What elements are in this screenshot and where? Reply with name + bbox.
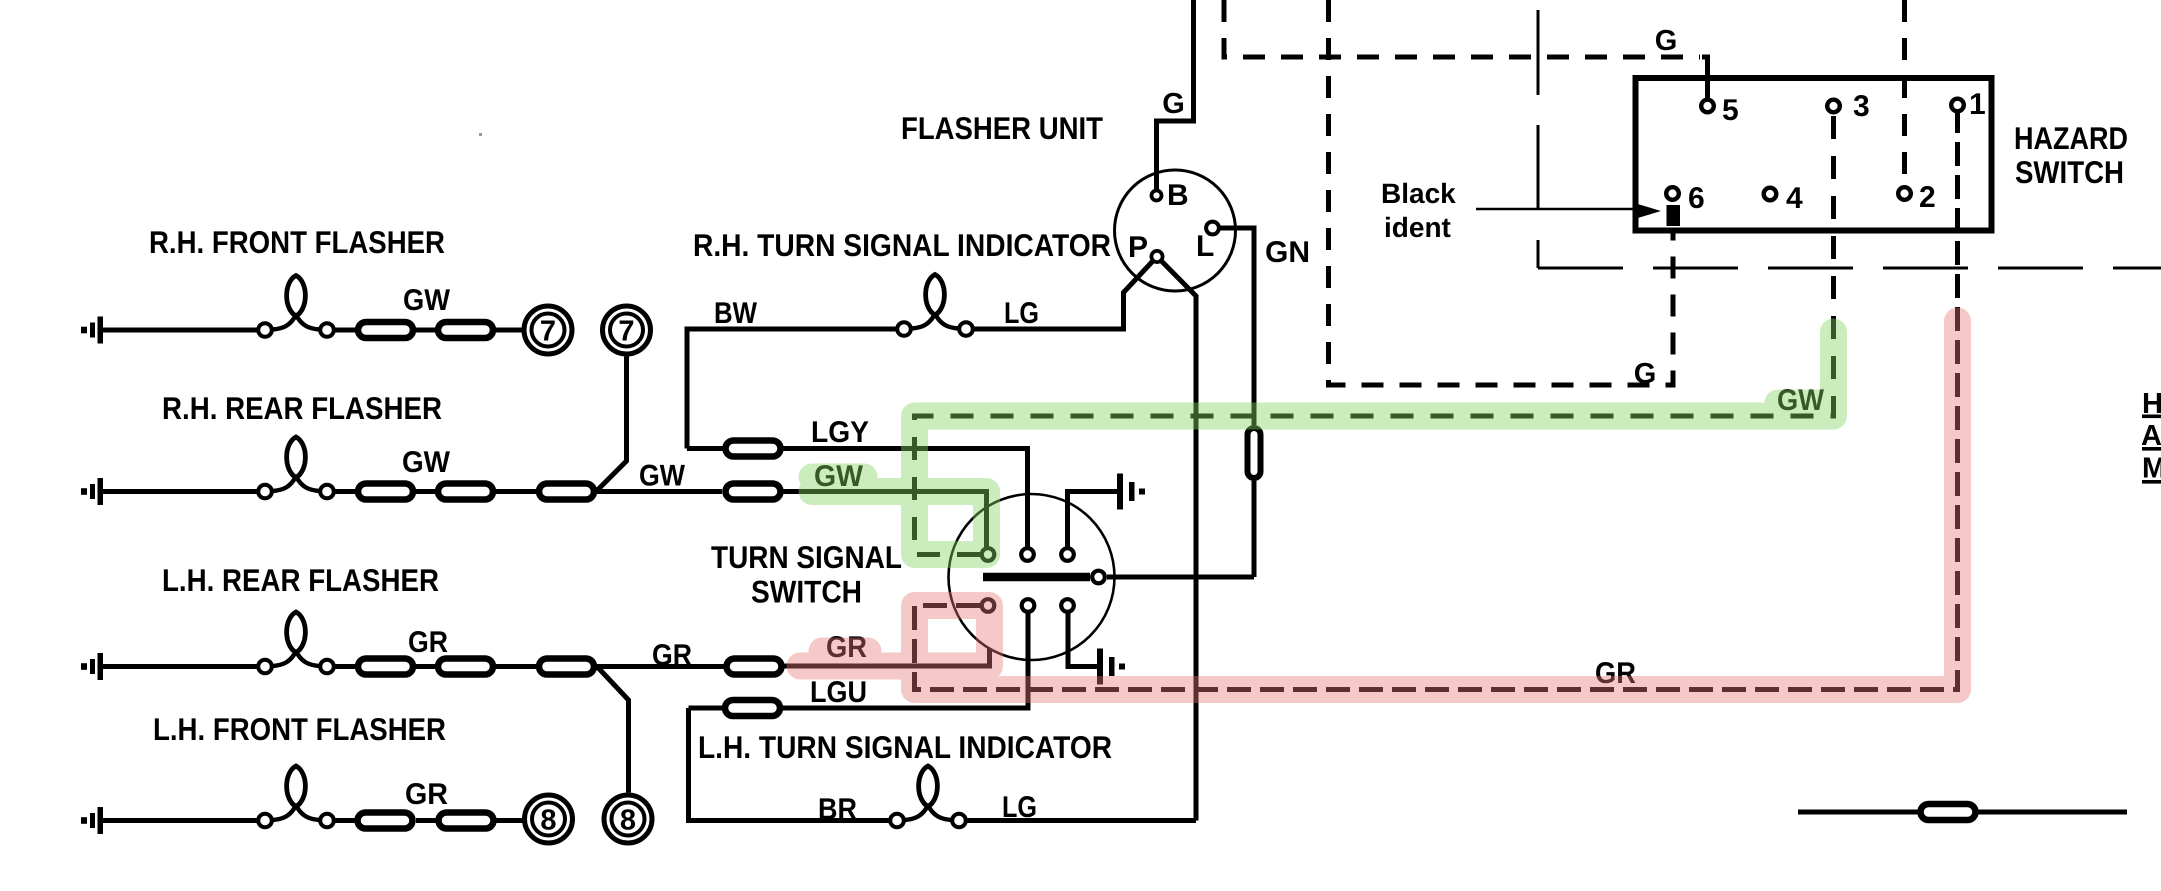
- lamp R.H. front flasher: [258, 276, 334, 337]
- wire L.H. front flasher: [103, 818, 523, 823]
- connector: [438, 659, 493, 675]
- connector: [358, 659, 413, 675]
- scan speck: [479, 133, 482, 136]
- label L.H. REAR FLASHER: [162, 562, 439, 598]
- svg-text:7: 7: [618, 316, 634, 348]
- svg-text:BW: BW: [714, 297, 758, 330]
- arrow to black ident: [1476, 204, 1661, 219]
- svg-text:GR: GR: [408, 626, 448, 659]
- wire R.H. front flasher: [103, 328, 522, 333]
- pin 2 of hazard switch: [1898, 181, 1935, 214]
- svg-text:1: 1: [1969, 88, 1986, 121]
- pin B of flasher unit: [1152, 191, 1162, 201]
- wire GR to turn signal switch terminal: [785, 614, 990, 667]
- svg-text:GW: GW: [639, 460, 686, 493]
- svg-text:LGY: LGY: [811, 416, 869, 449]
- wire node 7 to R.H. rear flasher junction: [597, 357, 627, 491]
- connector: [439, 813, 494, 829]
- svg-text:R.H. TURN SIGNAL INDICATOR: R.H. TURN SIGNAL INDICATOR: [693, 227, 1111, 263]
- turn signal switch body: [949, 494, 1115, 660]
- label L: [1196, 230, 1214, 263]
- label P: [1128, 231, 1148, 264]
- highlight red GR route: [800, 321, 1958, 690]
- label Black ident: [1381, 178, 1456, 243]
- wire L.H. rear flasher: [103, 664, 724, 669]
- svg-text:B: B: [1167, 179, 1189, 212]
- svg-text:ident: ident: [1384, 212, 1451, 243]
- lamp L.H. rear flasher: [258, 612, 334, 673]
- wire from flasher unit pin P to L.H. indicator: [1157, 257, 1196, 821]
- connector: [358, 322, 413, 338]
- svg-text:R.H. FRONT FLASHER: R.H. FRONT FLASHER: [149, 224, 445, 260]
- label B: [1167, 179, 1189, 212]
- svg-text:GW: GW: [403, 284, 451, 317]
- svg-text:M: M: [2142, 453, 2161, 485]
- centre line (panel boundary): [1538, 10, 2161, 268]
- wire GW to turn signal switch terminal: [784, 492, 987, 548]
- wire LGY: [687, 449, 1028, 548]
- node 8: [525, 795, 573, 843]
- connector GR: [727, 659, 782, 675]
- svg-text:3: 3: [1853, 90, 1870, 123]
- lamp L.H. turn signal indicator: [890, 766, 966, 827]
- pin 5 of hazard switch: [1701, 94, 1738, 127]
- svg-text:LGU: LGU: [810, 676, 867, 709]
- pin P of flasher unit: [1151, 251, 1162, 262]
- connector: [438, 322, 493, 338]
- label R.H. TURN SIGNAL INDICATOR: [693, 227, 1111, 263]
- svg-text:SWITCH: SWITCH: [2015, 154, 2124, 190]
- label GW (after junction): [639, 460, 686, 493]
- label G: [1655, 25, 1678, 57]
- svg-text:LG: LG: [1002, 791, 1037, 824]
- label R.H. FRONT FLASHER: [149, 224, 445, 260]
- label LGY: [811, 416, 869, 449]
- svg-text:5: 5: [1722, 94, 1739, 127]
- wire BR / LG (L.H. turn signal indicator): [689, 708, 1197, 821]
- node 7: [603, 306, 651, 354]
- svg-text:G: G: [1634, 358, 1657, 390]
- wire lower ground of turn signal switch: [1068, 614, 1097, 667]
- pin L of flasher unit: [1206, 222, 1219, 235]
- svg-text:8: 8: [620, 805, 636, 837]
- connector: [358, 813, 413, 829]
- ground R.H. rear flasher: [81, 478, 103, 505]
- lamp R.H. rear flasher: [258, 437, 334, 498]
- connector GN vertical: [1248, 428, 1261, 478]
- terminal B2: [1022, 599, 1035, 612]
- connector: [539, 659, 594, 675]
- terminal B1: [982, 599, 995, 612]
- svg-text:L.H. REAR FLASHER: L.H. REAR FLASHER: [162, 562, 439, 598]
- label L.H. TURN SIGNAL INDICATOR: [698, 729, 1112, 765]
- terminal T1: [982, 548, 995, 561]
- svg-text:Black: Black: [1381, 178, 1456, 209]
- hazard switch body: [1636, 78, 1992, 231]
- ground L.H. front flasher: [81, 807, 103, 834]
- svg-text:4: 4: [1786, 182, 1803, 215]
- svg-text:P: P: [1128, 231, 1148, 264]
- svg-text:G: G: [1162, 88, 1185, 120]
- label GW: [814, 460, 864, 493]
- connector: [438, 484, 493, 500]
- label BR: [818, 793, 857, 826]
- wiper bar of turn signal switch: [983, 573, 1090, 582]
- lamp L.H. front flasher: [258, 766, 334, 827]
- label A (cut): [2141, 420, 2161, 452]
- wire G from flasher unit pin B: [1157, 0, 1194, 196]
- wire junction to node 8: [597, 667, 629, 793]
- svg-text:FLASHER UNIT: FLASHER UNIT: [901, 110, 1103, 146]
- label GR: [826, 631, 867, 664]
- wire G riser to hazard pin 5: [1702, 57, 1708, 99]
- svg-text:BR: BR: [818, 793, 857, 826]
- ground L.H. rear flasher: [81, 653, 103, 680]
- label M (cut): [2142, 453, 2161, 485]
- wire upper ground of turn signal switch: [1068, 492, 1118, 548]
- svg-text:R.H. REAR FLASHER: R.H. REAR FLASHER: [162, 390, 442, 426]
- svg-text:7: 7: [540, 316, 556, 348]
- label GN: [1265, 236, 1310, 269]
- ground upper (turn signal switch): [1117, 474, 1145, 510]
- wire R.H. rear flasher: [103, 489, 722, 494]
- label H (cut): [2142, 388, 2161, 420]
- node 8: [604, 795, 652, 843]
- flasher unit body: [1115, 170, 1236, 291]
- pin 1 of hazard switch: [1951, 88, 1985, 121]
- terminal T2: [1021, 548, 1034, 561]
- connector: [539, 484, 594, 500]
- svg-text:L: L: [1196, 230, 1214, 263]
- highlight green GW route: [812, 332, 1834, 555]
- svg-text:GN: GN: [1265, 236, 1310, 269]
- terminal T3: [1061, 548, 1074, 561]
- wiper contact circle: [1092, 571, 1105, 584]
- wire BW / LG (R.H. turn signal indicator): [687, 257, 1157, 449]
- svg-text:TURN SIGNAL: TURN SIGNAL: [711, 539, 902, 575]
- label GW: [402, 446, 451, 479]
- label L.H. FRONT FLASHER: [153, 711, 446, 747]
- label LG: [1004, 297, 1039, 330]
- svg-text:L.H. TURN SIGNAL INDICATOR: L.H. TURN SIGNAL INDICATOR: [698, 729, 1112, 765]
- connector: [358, 484, 413, 500]
- terminal B3: [1061, 599, 1074, 612]
- wire G dashed (top): [1224, 0, 1700, 57]
- wire GW dashed: [915, 114, 1834, 555]
- svg-text:L.H. FRONT FLASHER: L.H. FRONT FLASHER: [153, 711, 446, 747]
- wire G dashed (left loop): [1329, 0, 1674, 385]
- label TURN SIGNAL SWITCH: [711, 539, 902, 610]
- label GR (after junction): [652, 639, 692, 672]
- label HAZARD SWITCH: [2014, 120, 2128, 190]
- label G: [1162, 88, 1185, 120]
- label FLASHER UNIT: [901, 110, 1103, 146]
- label GW: [1777, 384, 1825, 417]
- svg-text:2: 2: [1919, 181, 1936, 214]
- svg-text:LG: LG: [1004, 297, 1039, 330]
- label G: [1634, 358, 1657, 390]
- label GR: [1595, 657, 1636, 690]
- label GR: [408, 626, 448, 659]
- wire LGU: [689, 614, 1029, 709]
- svg-text:8: 8: [540, 805, 556, 837]
- wire wiper to GN: [1107, 575, 1254, 580]
- wire GR dashed: [915, 113, 1958, 690]
- label BW: [714, 297, 758, 330]
- svg-text:GW: GW: [402, 446, 451, 479]
- ground lower (turn signal switch): [1097, 649, 1125, 685]
- svg-text:GR: GR: [405, 778, 448, 811]
- label LGU: [810, 676, 867, 709]
- connector LGU: [725, 700, 780, 716]
- label GW: [403, 284, 451, 317]
- wire GN from flasher unit pin L: [1213, 228, 1255, 577]
- connector LGY: [726, 441, 781, 457]
- svg-text:SWITCH: SWITCH: [751, 574, 862, 610]
- wire bottom right: [1798, 810, 2127, 815]
- label GR: [405, 778, 448, 811]
- wire dashed to hazard pin 2: [1902, 0, 1907, 186]
- pin 4 of hazard switch: [1764, 182, 1803, 215]
- pin 6 of hazard switch: [1666, 182, 1704, 215]
- connector GW: [726, 484, 781, 500]
- pin 3 of hazard switch: [1827, 90, 1869, 123]
- label R.H. REAR FLASHER: [162, 390, 442, 426]
- lamp R.H. turn signal indicator: [897, 275, 973, 336]
- svg-text:6: 6: [1688, 182, 1705, 215]
- connector bottom right: [1921, 804, 1976, 820]
- ground R.H. front flasher: [81, 317, 103, 344]
- black ident mark: [1667, 205, 1681, 226]
- svg-text:GR: GR: [652, 639, 692, 672]
- svg-text:HAZARD: HAZARD: [2014, 120, 2128, 156]
- label LG: [1002, 791, 1037, 824]
- wire GW terminal riser: [984, 492, 989, 548]
- svg-text:G: G: [1655, 25, 1678, 57]
- node 7: [524, 306, 572, 354]
